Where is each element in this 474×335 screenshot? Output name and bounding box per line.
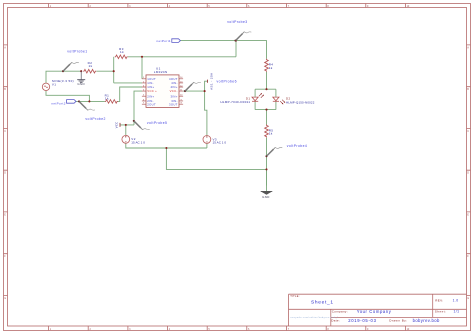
svg-text:TITLE:: TITLE: [290,294,300,298]
LED D2 HLMP-Q150 [273,96,315,104]
svg-text:D: D [4,172,6,175]
wire LED bottom rail [255,109,276,111]
svg-text:bobyrev.bob: bobyrev.bob [413,318,440,323]
title block [289,294,467,326]
svg-text:voltProbe3: voltProbe3 [227,20,247,24]
svg-text:VCC-: VCC- [170,89,178,93]
svg-text:REV:: REV: [435,299,443,303]
svg-text:V1: V1 [52,83,56,87]
wire 1OUT vertical [141,57,143,79]
svg-text:AS1 - 20A: AS1 - 20A [209,73,213,90]
svg-text:Sheet:: Sheet: [435,309,447,313]
svg-text:netPort2: netPort2 [51,101,66,105]
ground GND (near V1) [77,71,85,86]
probe voltProbe3 [227,20,251,42]
wire V1 top to R2 [46,71,81,83]
svg-text:Sheet_1: Sheet_1 [311,300,334,306]
svg-text:D: D [467,172,469,175]
voltage source V3 [203,136,226,145]
junction (236,40.6) [235,40,237,42]
svg-text:voltProbe1: voltProbe1 [67,49,87,53]
title block text [290,294,459,323]
probe voltProbe5 [133,120,168,130]
wire mid junction down and right to GND node [166,148,266,169]
wire GND stub [266,169,268,191]
svg-text:1k: 1k [105,97,109,101]
svg-text:1k: 1k [269,132,273,136]
svg-text:2OUT: 2OUT [147,102,156,106]
svg-text:HLMP-7040-D0011: HLMP-7040-D0011 [220,100,250,104]
junction (142,56.8) [141,56,143,58]
wire into op-amp 1IN- [114,82,142,84]
svg-text:3IN+: 3IN+ [171,94,178,98]
svg-text:1k: 1k [89,64,93,68]
svg-text:1k: 1k [120,50,124,54]
ammeter AS1 [207,73,213,90]
wire V3 bottom lead [206,143,208,148]
resistor R3 [115,47,128,59]
svg-text:HLMP-Q150-N0022: HLMP-Q150-N0022 [286,100,315,104]
svg-text:voltProbe2: voltProbe2 [85,117,105,121]
resistor R2 [83,61,96,73]
wire LED top rail [255,88,276,90]
LED D1 HLMP-7040 [220,93,263,104]
junction (113.7,71.2) [113,70,115,72]
wire VCC+ to VCC rail [120,91,142,125]
net flag VCC [115,121,120,128]
svg-text:3OUT: 3OUT [169,102,178,106]
svg-text:15 AC 1 0: 15 AC 1 0 [213,141,227,145]
wire feedback node up to netPort line [235,41,237,57]
svg-text:1/1: 1/1 [454,310,460,314]
wire ammeter node down to V3 top [205,91,207,135]
junction (266.5,109.6) [265,109,267,111]
svg-text:2019-05-03: 2019-05-03 [348,318,376,323]
wire R3 right to feedback node [128,56,236,58]
junction (89.4,101.4) [88,100,90,102]
wire vertical node R3-left / R2 / 1IN- [113,57,115,83]
svg-text:15 AC 1 0: 15 AC 1 0 [131,141,145,145]
svg-text:voltProbe4: voltProbe4 [287,144,307,148]
resistor R5 [265,125,274,138]
junction (81.2,71.2) [80,70,82,72]
svg-text:netPort1: netPort1 [156,39,171,43]
wire V1 bottom to netPort2 line [46,91,89,102]
net port netPort1 [156,39,180,43]
probe voltProbe2 [78,100,106,121]
junction (125.8,124.9) [125,124,127,126]
wire netPort1 line to R4 corner [180,41,266,59]
wire ammeter node up and stub [205,81,208,91]
ground GND (bottom) [261,191,273,199]
wire VCC- to ammeter node [183,90,205,92]
svg-text:1.0: 1.0 [453,299,459,303]
svg-text:GND: GND [77,82,85,86]
wire D1 leads [254,89,256,109]
svg-text:C: C [4,130,6,133]
wire netPort2 to R1 [76,100,105,102]
junction (266.5,89.2) [265,88,267,90]
svg-text:Your Company: Your Company [357,309,392,314]
svg-text:2IN+: 2IN+ [147,94,154,98]
wire D2 leads [275,89,277,109]
svg-text:VCC +: VCC + [147,89,157,93]
svg-text:Drawn By:: Drawn By: [389,318,407,322]
wire V2 bottom rail [126,143,207,148]
net port netPort2 [51,100,76,106]
probe voltProbe6 [184,79,237,92]
svg-text:voltProbe5: voltProbe5 [147,121,167,125]
junction (166.4,148) [165,147,167,149]
op-amp U1 LM324N [142,67,183,108]
junction (266.5,169.4) [265,168,267,170]
resistor R4 [265,59,274,72]
svg-text:LM324N: LM324N [154,70,168,74]
wire R2 right to node [96,70,113,72]
junction (204.6,91.1) [204,90,206,92]
wire R5 to GND junction [266,138,268,186]
probe voltProbe4 [265,144,307,157]
svg-text:C: C [467,130,469,133]
svg-text:G: G [4,297,6,300]
voltage source V2 [122,135,145,144]
voltage source V1 SINE [42,79,74,90]
svg-text:VCC: VCC [115,121,119,128]
svg-text:voltProbe6: voltProbe6 [217,79,237,83]
svg-text:G: G [467,297,469,300]
resistor R1 [105,93,118,103]
wire VCC rail to V2 top [125,125,127,135]
probe voltProbe1 [62,49,88,72]
svg-text:GND: GND [262,195,270,199]
wire R1 up to 1IN+ [117,87,142,101]
svg-text:Company:: Company: [332,309,348,313]
wire R4 to LED rail [266,72,268,89]
svg-text:1k: 1k [269,66,273,70]
wire LED rail to R5 [266,110,268,125]
svg-text:Date:: Date: [331,318,340,322]
